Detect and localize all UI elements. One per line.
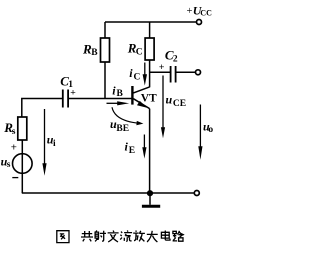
transistor VT emitter [133, 99, 149, 109]
wire Rs to source [21, 140, 23, 154]
resistor RC [145, 38, 154, 60]
svg-text:2: 2 [173, 54, 178, 64]
svg-text:+: + [187, 6, 193, 17]
svg-text:B: B [117, 89, 124, 99]
svg-text:E: E [129, 146, 135, 156]
capacitor C1 [63, 90, 68, 108]
transistor VT base bar [131, 86, 133, 105]
svg-text:C: C [134, 72, 141, 82]
ground [149, 196, 151, 205]
caption char lu [173, 231, 184, 241]
caption char liu [120, 231, 132, 242]
svg-text:s: s [12, 127, 16, 137]
transistor emitter arrowhead [137, 101, 147, 108]
terminal output top [196, 70, 201, 75]
svg-text:+: + [70, 87, 76, 98]
arrow ui [44, 109, 46, 164]
svg-text:+: + [159, 62, 165, 73]
wire RC bottom lead [149, 60, 151, 87]
svg-text:u: u [166, 92, 173, 106]
caption char she [95, 231, 106, 242]
arrow iB [107, 102, 119, 104]
caption char fang [133, 231, 145, 242]
svg-text:o: o [208, 125, 213, 135]
junction dot [147, 190, 153, 196]
arrow uCE [162, 76, 164, 129]
wire through source [21, 154, 23, 193]
svg-text:B: B [91, 48, 98, 58]
svg-text:i: i [53, 139, 56, 149]
caption char dian [161, 231, 170, 241]
caption char da [147, 231, 158, 242]
svg-text:BE: BE [116, 124, 129, 134]
wire C2 left [150, 71, 170, 73]
wire C2 right [176, 71, 195, 73]
caption char jiao [108, 231, 119, 243]
wire top rail [105, 21, 196, 23]
caption (drawn CJK strokes) [57, 231, 184, 243]
minus us [12, 177, 18, 179]
svg-text:C: C [136, 47, 143, 57]
wire input right segment [69, 98, 132, 100]
arrow iC [144, 63, 146, 76]
svg-text:s: s [7, 160, 11, 170]
resistor Rs [18, 117, 27, 140]
arrow uo [199, 105, 201, 148]
arrow uBE curved [112, 107, 139, 123]
svg-text:CE: CE [173, 99, 186, 109]
svg-text:VT: VT [141, 92, 157, 104]
wire input left segment [22, 99, 62, 118]
terminal output bottom [194, 191, 199, 196]
wire RB bottom lead [104, 62, 106, 99]
source us [12, 154, 32, 174]
wire RC top lead [149, 22, 151, 38]
arrow iE [143, 135, 145, 149]
svg-text:CC: CC [200, 9, 212, 18]
svg-text:+: + [11, 141, 17, 153]
wire RB top lead [104, 22, 106, 38]
wire emitter down [149, 109, 151, 193]
caption char gong [81, 231, 93, 241]
terminal +UCC [197, 20, 202, 25]
resistor RB [101, 38, 110, 62]
wire bottom rail [22, 192, 194, 194]
capacitor C2 [171, 66, 176, 83]
transistor VT collector [133, 87, 149, 93]
caption char tu [57, 231, 69, 243]
